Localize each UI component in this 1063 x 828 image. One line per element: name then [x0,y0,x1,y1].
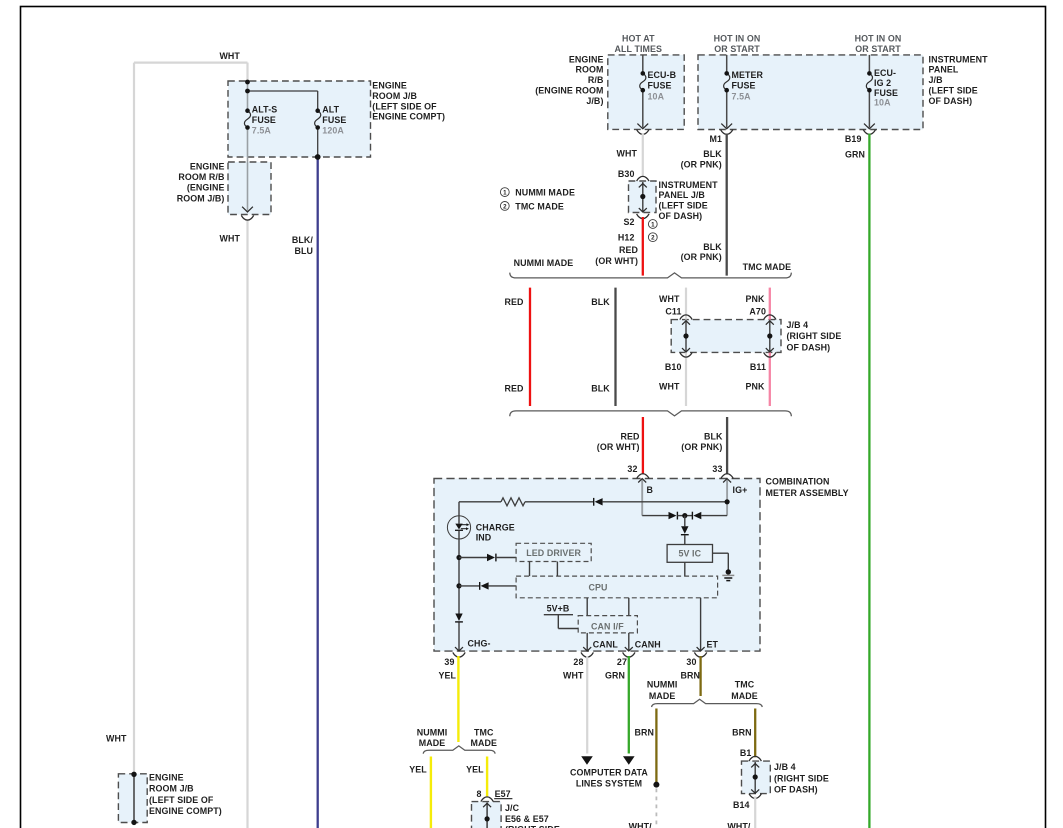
svg-text:(OR PNK): (OR PNK) [681,159,722,169]
svg-text:HOT IN ON: HOT IN ON [714,33,761,43]
svg-text:ENGINE: ENGINE [372,81,407,91]
svg-text:32: 32 [627,464,637,474]
svg-text:S2: S2 [623,217,634,227]
svg-text:33: 33 [712,464,722,474]
svg-text:FUSE: FUSE [252,115,276,125]
svg-text:OR START: OR START [714,44,760,54]
svg-text:MADE: MADE [731,691,758,701]
svg-text:NUMMI MADE: NUMMI MADE [515,188,575,198]
svg-text:ROOM: ROOM [575,65,603,75]
svg-text:YEL: YEL [466,764,484,774]
svg-text:E57: E57 [495,789,511,799]
svg-text:28: 28 [573,657,583,667]
svg-text:RED: RED [504,383,524,393]
svg-text:WHT: WHT [563,670,584,680]
svg-text:J/B 4: J/B 4 [787,320,809,330]
svg-text:(ENGINE ROOM: (ENGINE ROOM [535,86,603,96]
svg-text:(OR PNK): (OR PNK) [681,442,722,452]
svg-text:2: 2 [503,203,507,210]
svg-text:CAN I/F: CAN I/F [591,622,624,632]
svg-text:(LEFT SIDE OF: (LEFT SIDE OF [149,795,214,805]
svg-text:FUSE: FUSE [648,81,672,91]
svg-text:NUMMI MADE: NUMMI MADE [514,258,574,268]
svg-text:1: 1 [503,190,507,197]
svg-text:FUSE: FUSE [874,88,898,98]
svg-text:PANEL: PANEL [929,65,959,75]
svg-text:MADE: MADE [419,738,446,748]
svg-text:C11: C11 [665,307,681,317]
svg-text:ENGINE: ENGINE [190,161,225,171]
svg-text:BLK: BLK [703,149,722,159]
svg-text:RED: RED [620,432,640,442]
svg-text:BLK: BLK [591,297,610,307]
svg-text:OF DASH): OF DASH) [929,96,973,106]
svg-text:PANEL J/B: PANEL J/B [659,190,705,200]
svg-text:(LEFT SIDE OF: (LEFT SIDE OF [372,101,437,111]
svg-text:120A: 120A [322,125,344,135]
svg-text:GRN: GRN [605,670,625,680]
svg-text:7.5A: 7.5A [252,125,272,135]
svg-text:8: 8 [476,789,481,799]
svg-text:(LEFT SIDE: (LEFT SIDE [659,201,708,211]
svg-text:RED: RED [504,297,524,307]
svg-text:(LEFT SIDE: (LEFT SIDE [929,86,978,96]
svg-text:PNK: PNK [745,382,765,392]
svg-text:ALT-S: ALT-S [252,105,277,115]
svg-text:FUSE: FUSE [322,115,346,125]
svg-text:30: 30 [686,657,696,667]
svg-text:B10: B10 [665,362,682,372]
svg-text:BLK: BLK [704,432,723,442]
svg-text:J/C: J/C [505,803,520,813]
svg-text:5V+B: 5V+B [547,604,570,614]
svg-text:B30: B30 [618,169,635,179]
svg-text:FUSE: FUSE [732,81,756,91]
svg-text:(RIGHT SIDE: (RIGHT SIDE [787,331,842,341]
svg-text:(OR WHT): (OR WHT) [597,442,640,452]
svg-text:COMBINATION: COMBINATION [766,477,830,487]
svg-text:ECU-: ECU- [874,68,896,78]
svg-text:2: 2 [651,235,655,242]
svg-text:NUMMI: NUMMI [647,680,678,690]
svg-text:YEL: YEL [438,670,456,680]
svg-text:7.5A: 7.5A [732,91,752,101]
svg-text:B14: B14 [733,800,750,810]
svg-text:(RIGHT SIDE: (RIGHT SIDE [774,773,829,783]
svg-text:METER ASSEMBLY: METER ASSEMBLY [766,488,849,498]
svg-text:WHT: WHT [659,382,680,392]
svg-text:BLU: BLU [294,246,313,256]
svg-text:CANL: CANL [593,640,619,650]
svg-text:OR START: OR START [855,44,901,54]
svg-text:HOT AT: HOT AT [622,33,655,43]
svg-text:27: 27 [617,657,627,667]
svg-text:CHG-: CHG- [468,639,491,649]
svg-text:METER: METER [732,70,764,80]
svg-text:WHT: WHT [106,734,127,744]
svg-text:J/B 4: J/B 4 [774,762,796,772]
svg-text:TMC: TMC [474,727,494,737]
svg-text:WHT: WHT [616,149,637,159]
svg-text:BRN: BRN [634,728,654,738]
svg-text:WHT/: WHT/ [727,822,751,828]
svg-text:ROOM J/B: ROOM J/B [372,91,417,101]
svg-text:INSTRUMENT: INSTRUMENT [659,180,719,190]
svg-text:ALL TIMES: ALL TIMES [615,44,663,54]
svg-text:J/B: J/B [929,75,943,85]
svg-text:B19: B19 [845,134,862,144]
svg-text:RED: RED [619,245,639,255]
svg-text:M1: M1 [709,134,722,144]
svg-text:BRN: BRN [680,670,700,680]
svg-text:PNK: PNK [745,294,765,304]
svg-text:ALT: ALT [322,105,339,115]
svg-text:(ENGINE: (ENGINE [187,183,225,193]
svg-text:MADE: MADE [471,738,498,748]
svg-text:J/B): J/B) [586,96,603,106]
svg-text:10A: 10A [874,98,891,108]
svg-text:TMC MADE: TMC MADE [515,201,564,211]
svg-text:BLK: BLK [591,383,610,393]
svg-text:1: 1 [651,221,655,228]
svg-text:B11: B11 [750,362,766,372]
svg-text:IND: IND [476,533,492,543]
svg-text:B: B [647,485,654,495]
svg-text:WHT: WHT [219,234,240,244]
svg-text:BRN: BRN [732,728,752,738]
svg-text:H12: H12 [618,233,635,243]
svg-text:BLK: BLK [703,242,722,252]
svg-text:COMPUTER DATA: COMPUTER DATA [570,768,648,778]
svg-text:ECU-B: ECU-B [648,70,677,80]
svg-text:NUMMI: NUMMI [417,727,448,737]
svg-text:CHARGE: CHARGE [476,522,515,532]
svg-text:(RIGHT SIDE: (RIGHT SIDE [505,825,560,828]
svg-text:ROOM J/B): ROOM J/B) [177,193,225,203]
svg-text:10A: 10A [648,91,665,101]
svg-text:CANH: CANH [635,640,661,650]
svg-text:A70: A70 [749,307,766,317]
svg-text:TMC MADE: TMC MADE [743,262,792,272]
svg-text:BLK/: BLK/ [292,235,314,245]
svg-text:INSTRUMENT: INSTRUMENT [929,54,989,64]
svg-text:IG+: IG+ [733,485,748,495]
svg-text:WHT: WHT [659,294,680,304]
svg-text:IG 2: IG 2 [874,78,891,88]
svg-text:R/B: R/B [588,75,604,85]
svg-text:ENGINE: ENGINE [569,54,604,64]
svg-text:MADE: MADE [649,691,676,701]
svg-text:OF DASH): OF DASH) [787,343,831,353]
svg-text:OF DASH): OF DASH) [774,785,818,795]
svg-text:LED DRIVER: LED DRIVER [526,548,581,558]
svg-text:GRN: GRN [845,150,865,160]
svg-text:ENGINE COMPT): ENGINE COMPT) [149,806,222,816]
svg-text:ENGINE COMPT): ENGINE COMPT) [372,112,445,122]
svg-text:ENGINE: ENGINE [149,772,184,782]
svg-text:OF DASH): OF DASH) [659,211,703,221]
svg-text:HOT IN ON: HOT IN ON [855,33,902,43]
svg-text:5V IC: 5V IC [678,549,701,559]
svg-text:CPU: CPU [588,583,607,593]
svg-text:(OR WHT): (OR WHT) [595,256,638,266]
svg-text:ET: ET [707,640,719,650]
svg-text:WHT: WHT [219,51,240,61]
svg-text:ROOM R/B: ROOM R/B [178,172,224,182]
svg-text:E56 & E57: E56 & E57 [505,814,549,824]
svg-text:39: 39 [444,657,454,667]
svg-text:ROOM J/B: ROOM J/B [149,784,194,794]
svg-text:(OR PNK): (OR PNK) [681,252,722,262]
svg-text:LINES SYSTEM: LINES SYSTEM [576,779,642,789]
svg-text:WHT/: WHT/ [629,822,653,828]
svg-text:TMC: TMC [735,680,755,690]
svg-text:B1: B1 [740,748,752,758]
svg-text:YEL: YEL [409,764,427,774]
